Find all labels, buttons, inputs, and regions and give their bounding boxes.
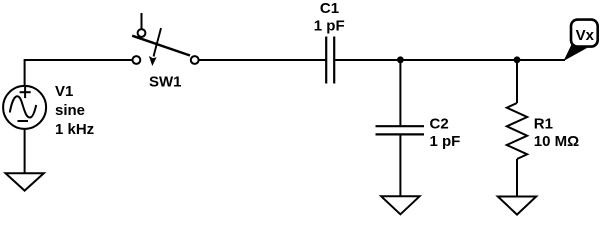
svg-text:1 pF: 1 pF [314,17,345,34]
svg-text:10 MΩ: 10 MΩ [534,133,579,150]
svg-text:C1: C1 [320,0,339,17]
svg-text:V1: V1 [55,83,73,100]
svg-text:1 pF: 1 pF [430,133,461,150]
svg-text:Vx: Vx [576,27,595,44]
svg-text:SW1: SW1 [149,73,182,90]
svg-text:C2: C2 [430,116,449,133]
svg-text:sine: sine [55,102,85,119]
svg-text:R1: R1 [534,116,553,133]
svg-text:1 kHz: 1 kHz [55,121,94,138]
